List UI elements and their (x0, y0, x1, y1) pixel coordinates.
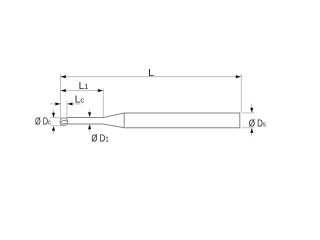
Dc upper arrowhead (points down) (52, 113, 55, 118)
svg-text:L1: L1 (79, 81, 89, 92)
dimension line L (61, 76, 241, 78)
Lc left tail line (50, 103, 60, 105)
D1 arrow stem upper (89, 110, 91, 113)
Ds top extension line (242, 112, 255, 114)
taper/shank junction line (123, 113, 125, 128)
svg-text:Ø Dc: Ø Dc (35, 117, 51, 128)
flute edge upper arc (60, 120, 67, 123)
Lc right arrowhead (points left) (67, 102, 72, 105)
Dc lower arrowhead (points up) (52, 126, 55, 131)
L1 left arrowhead (61, 89, 66, 92)
neck bottom line (67, 123, 103, 125)
taper top line (103, 113, 124, 117)
Dc arrow stem upper (53, 110, 55, 114)
svg-text:Ø D1: Ø D1 (91, 133, 108, 144)
extension line at shank end (L) (240, 74, 242, 112)
svg-text:Lc: Lc (75, 95, 85, 106)
L right arrowhead (236, 75, 241, 78)
shank top line (124, 112, 240, 114)
svg-text:Ø Ds: Ø Ds (249, 119, 266, 130)
Ds arrow stem lower (251, 132, 253, 136)
D1 lower arrowhead (points up) (88, 124, 91, 129)
Lc right tail line (67, 103, 81, 105)
extension line at tool tip (59, 74, 61, 119)
Ds lower arrowhead (points up) (250, 128, 253, 133)
neck top line (67, 116, 104, 118)
shank end face line (239, 113, 241, 128)
ball nose tip (60, 118, 68, 126)
L left arrowhead (61, 75, 66, 78)
dimension line L1 (61, 90, 103, 92)
flute edge lower arc (61, 124, 67, 125)
Ds bottom extension line (242, 127, 255, 129)
extension line at cut-length end (Lc) (66, 101, 68, 117)
Ds arrow stem upper (251, 104, 253, 108)
L1 right arrowhead (98, 89, 103, 92)
Ds upper arrowhead (points down) (250, 108, 253, 113)
Dc bottom extension line (51, 125, 62, 127)
D1 upper arrowhead (points down) (88, 112, 91, 117)
Dc arrow stem lower (53, 130, 55, 134)
taper bottom line (103, 124, 124, 128)
svg-text:L: L (148, 68, 154, 79)
shank bottom line (124, 127, 240, 129)
Dc top extension line (51, 117, 61, 119)
D1 arrow stem lower (89, 129, 91, 132)
extension line at neck end (L1) (102, 89, 104, 117)
Lc left arrowhead (points right) (55, 102, 60, 105)
